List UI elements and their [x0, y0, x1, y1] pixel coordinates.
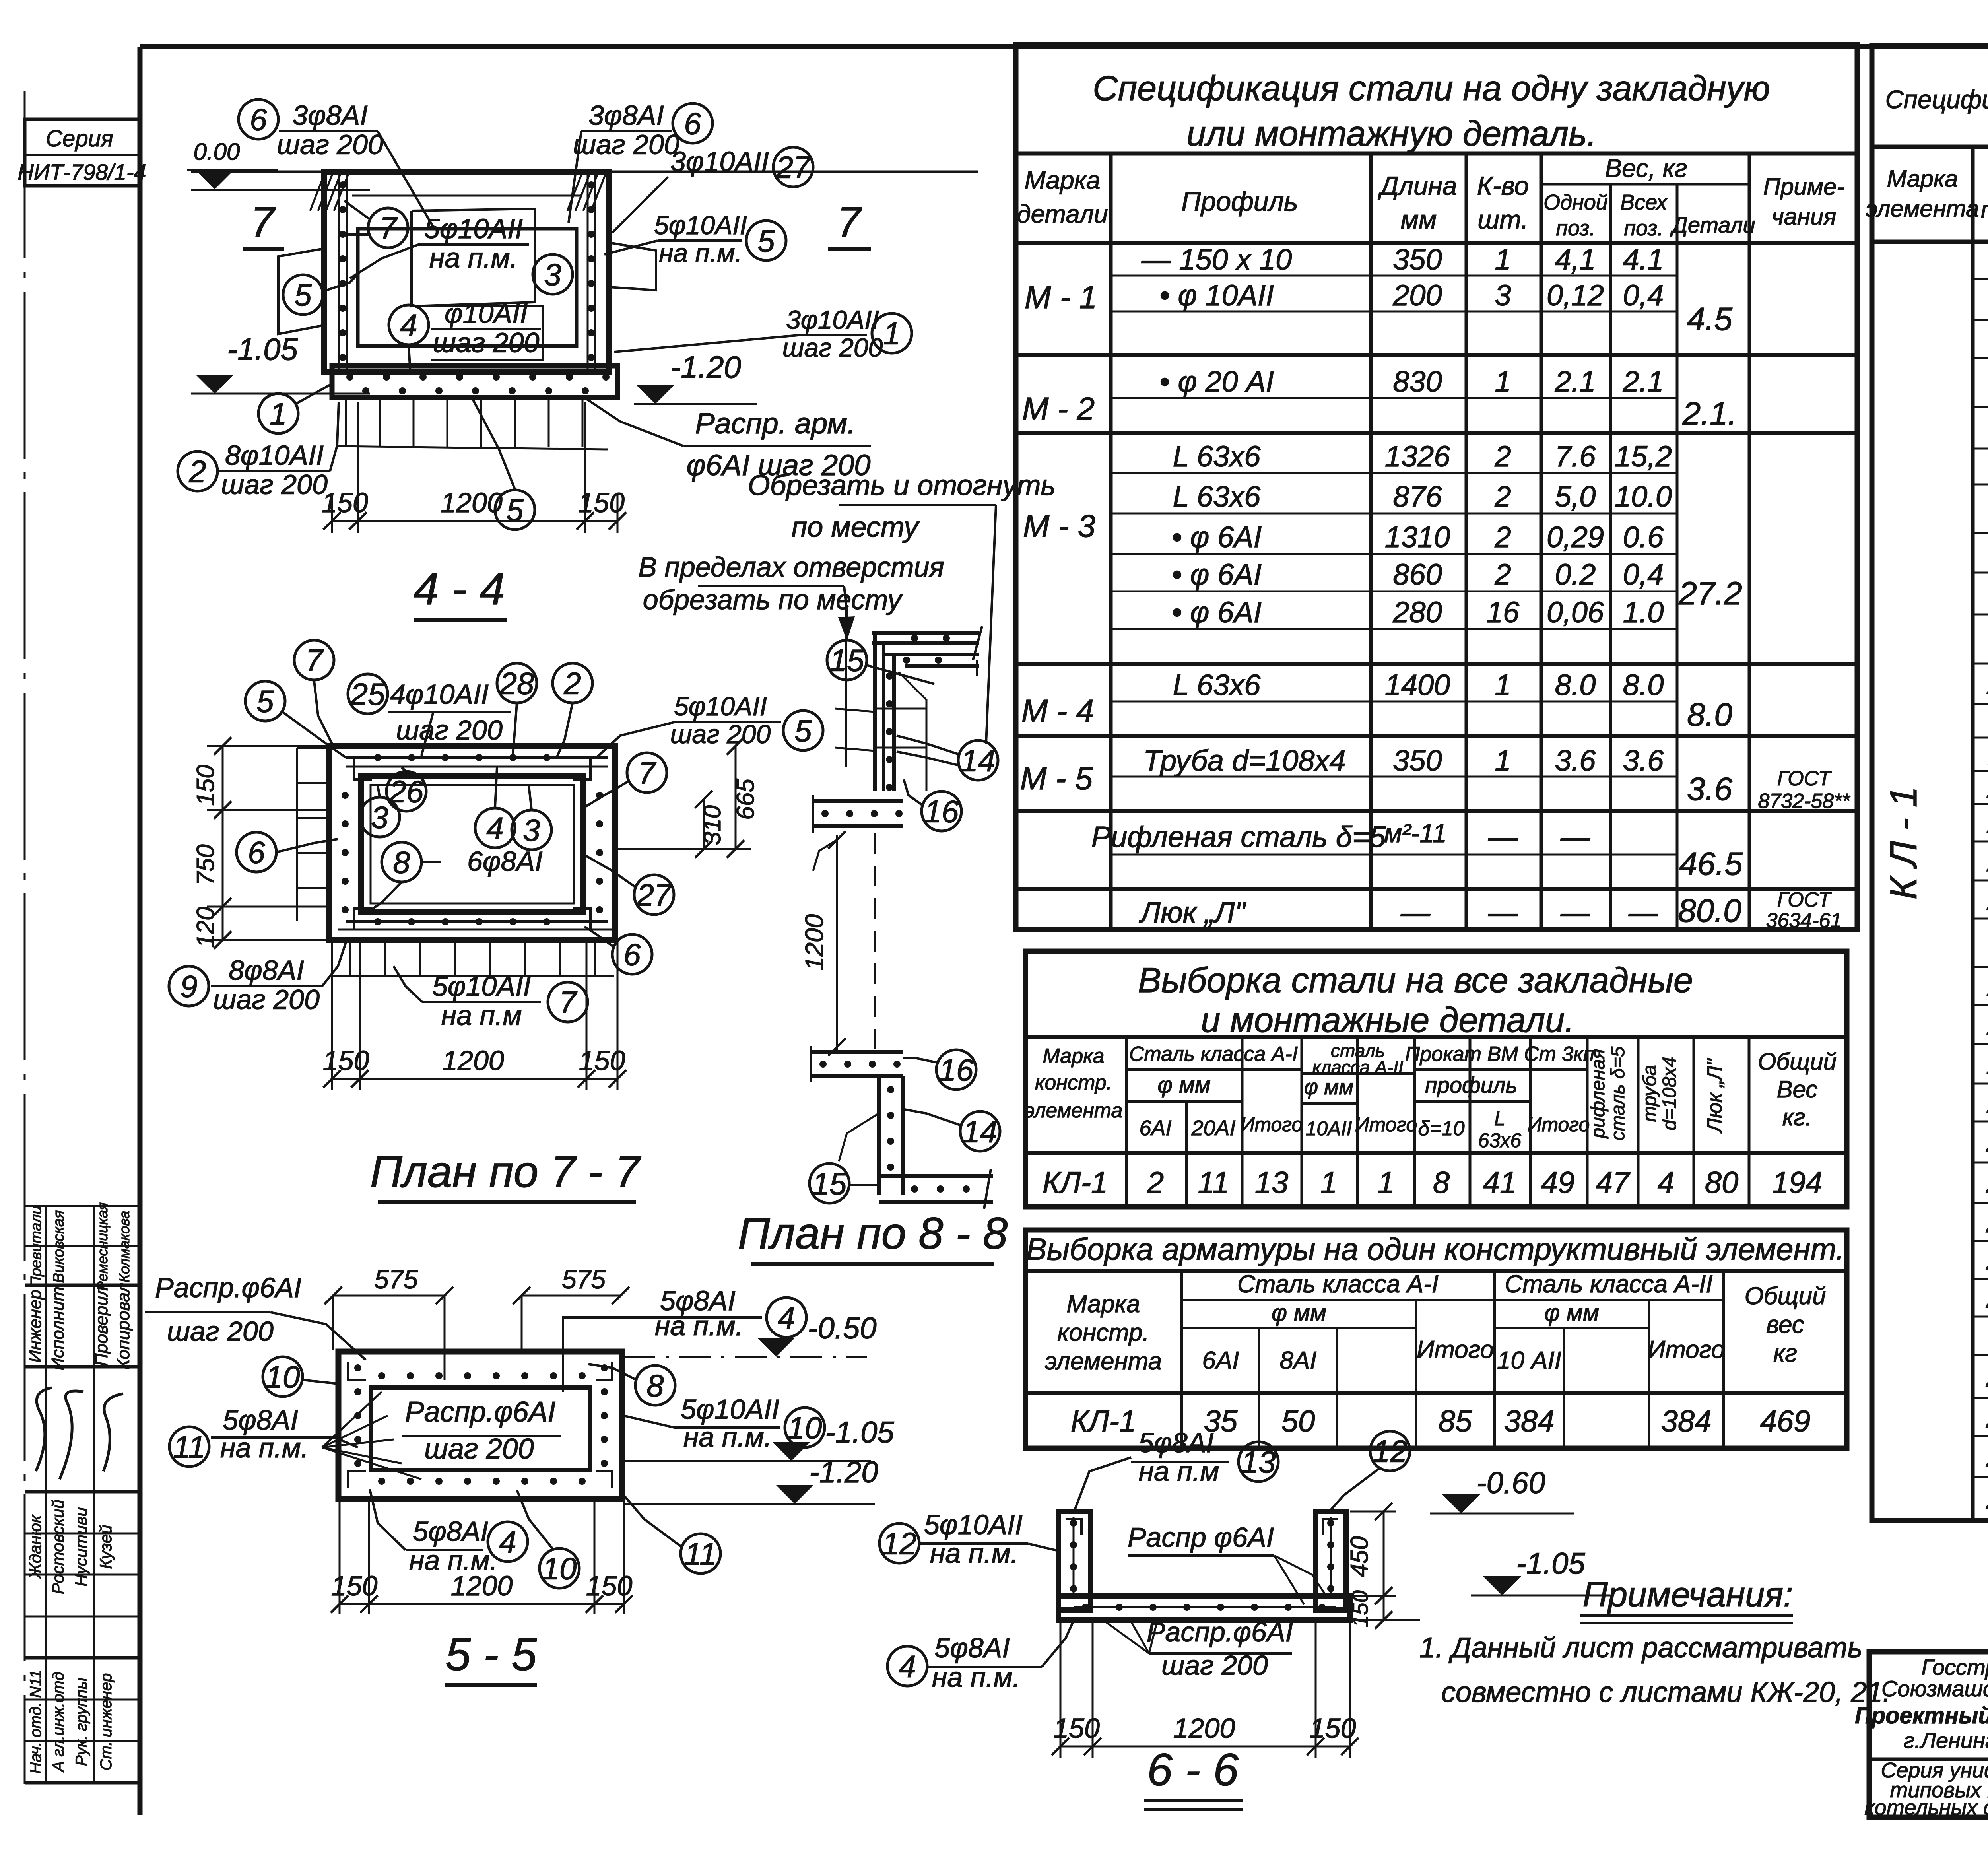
svg-text:чания: чания	[1772, 203, 1837, 230]
svg-text:—: —	[1560, 820, 1590, 853]
section 6-6 slab dash-dot extension	[1352, 1619, 1427, 1621]
plan 8-8 top corner wing lines	[899, 672, 926, 791]
section 4-4 label circle 5 left	[283, 275, 323, 315]
plan 7-7 bottom dimension 150 1200 150	[331, 940, 333, 1090]
svg-text:150: 150	[578, 487, 625, 518]
svg-text:Марка: Марка	[1887, 165, 1958, 192]
svg-text:-0.60: -0.60	[1476, 1466, 1545, 1500]
svg-text:876: 876	[1393, 480, 1442, 513]
svg-text:1400: 1400	[1385, 668, 1450, 701]
svg-text:Распр.φ6AI: Распр.φ6AI	[1147, 1616, 1293, 1647]
svg-text:КЛ-1: КЛ-1	[1071, 1404, 1136, 1438]
svg-text:φ мм: φ мм	[1272, 1300, 1326, 1326]
svg-text:15: 15	[1986, 883, 1988, 917]
svg-text:7: 7	[837, 198, 862, 246]
plan 8-8 label circle 16 bottom	[936, 1050, 976, 1090]
svg-text:10.0: 10.0	[1615, 480, 1672, 513]
svg-text:4.5: 4.5	[1687, 301, 1732, 337]
svg-text:шаг 200: шаг 200	[424, 1433, 534, 1465]
plan 7-7 right dimension 665	[735, 746, 737, 849]
svg-text:Марка: Марка	[1043, 1045, 1104, 1068]
svg-text:5φ8AI: 5φ8AI	[223, 1404, 298, 1435]
svg-text:5: 5	[256, 684, 274, 719]
svg-text:Ремесницкая: Ремесницкая	[94, 1202, 111, 1291]
svg-text:7.6: 7.6	[1555, 440, 1596, 473]
svg-text:6АI: 6АI	[1139, 1116, 1171, 1140]
table 2 header inner lines	[1126, 1068, 1302, 1071]
svg-text:Одной: Одной	[1543, 190, 1608, 214]
section 6-6 wall hooks	[1066, 1519, 1081, 1535]
svg-text:5φ10AII: 5φ10AII	[424, 213, 523, 244]
section 5-5 rebar dots bottom	[378, 1478, 385, 1485]
plan 7-7 label circle 7 right	[627, 753, 667, 793]
svg-text:4: 4	[400, 307, 417, 342]
table 1 header bottom line	[1016, 241, 1857, 245]
svg-text:4: 4	[486, 810, 503, 845]
svg-text:профиль: профиль	[1425, 1072, 1517, 1097]
svg-text:384: 384	[1661, 1404, 1712, 1438]
svg-text:63x6: 63x6	[1478, 1129, 1522, 1152]
svg-text:ГОСТ: ГОСТ	[1777, 888, 1832, 911]
svg-text:М - 3: М - 3	[1023, 508, 1095, 544]
svg-text:• φ 10AII: • φ 10AII	[1159, 279, 1274, 312]
svg-text:860: 860	[1393, 558, 1442, 591]
table 1 outer border	[1016, 45, 1857, 930]
svg-text:11: 11	[173, 1429, 206, 1464]
svg-text:16: 16	[924, 794, 959, 829]
svg-text:Итого: Итого	[1417, 1336, 1494, 1364]
svg-text:обрезать по месту: обрезать по месту	[643, 584, 903, 615]
section 4-4 right wall top hatch	[567, 175, 581, 211]
svg-text:3φ10AII: 3φ10AII	[786, 305, 879, 334]
svg-text:3: 3	[523, 812, 540, 847]
svg-text:469: 469	[1760, 1404, 1811, 1438]
table 3 header inner lines	[1182, 1299, 1494, 1301]
svg-text:Инженер: Инженер	[25, 1290, 45, 1363]
svg-text:24: 24	[1986, 1281, 1988, 1315]
svg-text:Люк „Л": Люк „Л"	[1703, 1058, 1726, 1134]
svg-text:Общий: Общий	[1745, 1282, 1826, 1310]
plan 8-8 dashed centerline	[874, 833, 876, 1052]
svg-text:Итого: Итого	[1241, 1113, 1303, 1136]
section 4-4 bottom slab rebar dots row2	[362, 387, 369, 394]
svg-text:и монтажные детали.: и монтажные детали.	[1201, 1000, 1574, 1039]
svg-text:350: 350	[1393, 243, 1442, 276]
svg-text:8: 8	[393, 845, 410, 880]
svg-text:Ростовский: Ростовский	[49, 1500, 67, 1594]
section 4-4 label 5f10AII na p.m. circle 3	[418, 243, 529, 246]
svg-text:Марка: Марка	[1024, 166, 1100, 194]
svg-text:шаг 200: шаг 200	[573, 129, 679, 160]
svg-text:— 150 x 10: — 150 x 10	[1141, 243, 1292, 276]
svg-text:120: 120	[192, 907, 219, 948]
svg-text:200: 200	[1392, 279, 1442, 312]
section 6-6 left wall	[1058, 1511, 1091, 1610]
plan 8-8 bottom corner bar vertical	[877, 1076, 881, 1195]
svg-text:5φ10AII: 5φ10AII	[674, 692, 767, 721]
svg-text:8: 8	[646, 1368, 664, 1403]
plan 7-7 rebar dots left wall	[342, 792, 349, 799]
svg-text:констр.: констр.	[1057, 1319, 1149, 1346]
svg-text:1: 1	[1495, 744, 1511, 777]
svg-text:шаг 200: шаг 200	[213, 984, 320, 1015]
section 5-5 bottom dimension 150 1200 150	[339, 1499, 341, 1614]
svg-text:2: 2	[1494, 558, 1511, 591]
stamp outer border	[1869, 1652, 1988, 1817]
svg-text:Нач. отд. N11: Нач. отд. N11	[27, 1670, 45, 1773]
svg-text:Детали: Детали	[1670, 212, 1755, 237]
svg-text:1200: 1200	[441, 487, 503, 518]
svg-text:Выборка стали на все закла: Выборка стали на все закладные	[1138, 960, 1693, 1000]
svg-text:11: 11	[685, 1536, 717, 1571]
svg-text:1200: 1200	[1173, 1713, 1235, 1744]
svg-text:8: 8	[1433, 1166, 1450, 1200]
section 4-4 label circle 5 bottom	[495, 490, 535, 530]
svg-text:1: 1	[1495, 668, 1511, 701]
svg-text:35: 35	[1204, 1404, 1238, 1438]
svg-text:Вес, кг: Вес, кг	[1605, 154, 1687, 183]
svg-text:констр.: констр.	[1035, 1071, 1112, 1094]
svg-text:15: 15	[812, 1166, 847, 1201]
svg-text:7: 7	[305, 643, 324, 678]
plan 7-7 label circle 6 left	[237, 832, 276, 872]
section 6-6 bottom slab	[1058, 1596, 1350, 1620]
section 4-4 top slab rebar line	[352, 195, 580, 197]
svg-text:150: 150	[323, 1045, 369, 1076]
svg-text:6 - 6: 6 - 6	[1147, 1744, 1239, 1795]
plan 7-7 rebar dots right wall	[596, 792, 603, 799]
svg-text:Рук. группы: Рук. группы	[73, 1678, 90, 1766]
stamp left cell divider	[1869, 1758, 1988, 1761]
section 5-5 label circle 10 left	[263, 1357, 303, 1397]
svg-text:Труба d=108x4: Труба d=108x4	[1143, 744, 1345, 777]
svg-text:2: 2	[563, 666, 581, 701]
svg-text:26: 26	[1986, 1401, 1988, 1434]
svg-text:Распр φ6AI: Распр φ6AI	[1128, 1522, 1274, 1553]
svg-text:14: 14	[963, 1114, 998, 1149]
svg-text:5: 5	[294, 277, 312, 312]
svg-text:Рифленая сталь δ=5: Рифленая сталь δ=5	[1091, 820, 1386, 853]
svg-text:8.0: 8.0	[1623, 668, 1664, 701]
plan 7-7 rebar dots top	[374, 754, 381, 761]
svg-text:4,1: 4,1	[1555, 243, 1596, 276]
svg-text:150: 150	[192, 765, 219, 806]
plan 7-7 label circle 25 4f10AII shag 200	[348, 674, 388, 714]
table 1 row lines	[1111, 275, 1677, 277]
svg-text:Длина: Длина	[1377, 171, 1457, 200]
svg-text:План по 8 - 8: План по 8 - 8	[738, 1208, 1008, 1258]
right table vertical lines	[1971, 147, 1975, 1521]
svg-text:8φ10AII: 8φ10AII	[225, 440, 324, 471]
section 5-5 label circle 8 right	[635, 1366, 675, 1405]
section 5-5 label circle 10 bottom	[540, 1548, 579, 1588]
svg-text:кг: кг	[1773, 1340, 1797, 1367]
svg-text:80.0: 80.0	[1678, 893, 1741, 929]
svg-text:150: 150	[586, 1570, 633, 1601]
table 2 outer border	[1025, 951, 1847, 1207]
svg-text:Серия: Серия	[46, 126, 113, 152]
svg-text:27: 27	[637, 877, 672, 912]
section 5-5 corner hooks	[348, 1362, 366, 1380]
svg-text:Исполнит.: Исполнит.	[48, 1282, 68, 1370]
plan 7-7 label 5f10AII na p.m circle 7 bottom	[422, 1001, 541, 1003]
svg-text:3: 3	[371, 800, 388, 835]
svg-text:6АI: 6АI	[1202, 1347, 1239, 1374]
svg-text:—: —	[1488, 896, 1518, 929]
section 4-4 label circle 4 f10AII shag 200	[389, 305, 429, 345]
svg-text:1. Данный лист рассматривать: 1. Данный лист рассматривать	[1419, 1632, 1862, 1664]
svg-text:7: 7	[379, 210, 398, 245]
svg-text:на п.м.: на п.м.	[429, 242, 518, 273]
svg-text:м²-11: м²-11	[1384, 818, 1447, 848]
svg-text:27: 27	[776, 150, 812, 185]
svg-text:5 - 5: 5 - 5	[445, 1629, 537, 1680]
svg-text:5φ10AII: 5φ10AII	[924, 1509, 1023, 1540]
svg-text:Итого: Итого	[1355, 1113, 1417, 1136]
section 6-6 label circle 12 left 5f10AII na p.m.	[879, 1523, 919, 1563]
section 4-4 label 3f10AII shag 200 circle 1 right	[798, 334, 867, 336]
svg-text:20: 20	[1986, 1125, 1988, 1159]
sidebar signature scribbles	[36, 1388, 52, 1471]
svg-text:16: 16	[1487, 596, 1520, 629]
svg-text:2: 2	[1494, 521, 1511, 554]
svg-text:Виковская: Виковская	[50, 1210, 67, 1283]
svg-text:750: 750	[192, 844, 219, 885]
svg-text:-1.05: -1.05	[825, 1416, 894, 1449]
svg-text:10: 10	[542, 1551, 577, 1586]
svg-text:-0.50: -0.50	[808, 1311, 876, 1345]
svg-text:на п.м.: на п.м.	[659, 238, 742, 268]
svg-text:46.5: 46.5	[1679, 846, 1743, 882]
table 2 vertical lines	[1125, 1037, 1128, 1207]
svg-text:8φ8AI: 8φ8AI	[229, 955, 304, 986]
svg-text:-1.05: -1.05	[227, 332, 298, 367]
svg-text:• φ 6AI: • φ 6AI	[1172, 558, 1262, 591]
plan 7-7 bottom formwork ladder	[331, 975, 614, 977]
svg-text:8.0: 8.0	[1687, 697, 1732, 733]
svg-text:Ст. инженер: Ст. инженер	[97, 1673, 115, 1771]
svg-text:Прокат ВМ Ст 3кп: Прокат ВМ Ст 3кп	[1405, 1043, 1595, 1066]
plan 8-8 bottom corner wing lines	[839, 1113, 879, 1161]
svg-text:3634-61: 3634-61	[1766, 909, 1842, 932]
section 5-5 rebar dots left	[354, 1364, 361, 1371]
section 4-4 ground line 0.00	[191, 171, 978, 173]
svg-text:элемента: элемента	[1025, 1099, 1123, 1122]
section 4-4 left formwork ledge	[278, 249, 324, 334]
svg-text:20АI: 20АI	[1191, 1116, 1235, 1140]
table 3 vertical lines	[1180, 1271, 1183, 1448]
svg-text:—: —	[1400, 896, 1431, 929]
plan 7-7 inner wall rectangle	[361, 776, 583, 912]
plan 7-7 label 5f10AII shag 200 circle 5 top right	[676, 721, 781, 723]
svg-text:12: 12	[882, 1526, 917, 1561]
svg-text:0,4: 0,4	[1623, 558, 1664, 591]
plan 7-7 label circle 5 top left	[245, 681, 285, 721]
svg-text:50: 50	[1281, 1404, 1315, 1438]
svg-text:Копировал: Копировал	[114, 1283, 133, 1370]
svg-text:труба: труба	[1639, 1065, 1660, 1122]
svg-text:5φ10AII: 5φ10AII	[681, 1394, 779, 1425]
svg-text:1: 1	[883, 316, 900, 351]
svg-text:5φ8AI: 5φ8AI	[1138, 1427, 1214, 1458]
svg-text:φ10AII: φ10AII	[445, 298, 528, 329]
svg-text:1310: 1310	[1385, 521, 1450, 554]
svg-text:13: 13	[1255, 1166, 1289, 1200]
svg-text:• φ 20 AI: • φ 20 AI	[1159, 365, 1274, 398]
svg-text:или монтажную деталь.: или монтажную деталь.	[1186, 114, 1597, 153]
svg-text:ГОСТ: ГОСТ	[1777, 767, 1832, 790]
svg-text:14: 14	[1986, 844, 1988, 878]
svg-text:1: 1	[1495, 243, 1511, 276]
section 6-6 left wall rebar dots	[1073, 1517, 1075, 1595]
svg-text:Сталь класса А-I: Сталь класса А-I	[1237, 1270, 1439, 1298]
svg-text:12: 12	[1373, 1434, 1408, 1469]
plan 7-7 label circle 7 top left	[294, 640, 334, 680]
svg-text:А гл.инж.отд: А гл.инж.отд	[50, 1672, 67, 1773]
svg-text:150: 150	[1347, 1590, 1373, 1627]
section 4-4 left wall inner rebar line	[338, 175, 340, 369]
svg-text:поз.: поз.	[1624, 216, 1663, 240]
table 2 header bottom line	[1025, 1151, 1847, 1155]
svg-text:на п.м.: на п.м.	[220, 1432, 309, 1463]
plan 8-8 label circle 14 bottom	[960, 1111, 1000, 1151]
svg-text:3.6: 3.6	[1623, 744, 1664, 777]
svg-text:7: 7	[250, 198, 276, 246]
svg-text:27: 27	[1986, 1440, 1988, 1474]
svg-text:3: 3	[544, 257, 561, 292]
plan 7-7 label circle 26	[386, 771, 426, 811]
svg-text:2: 2	[1147, 1166, 1164, 1200]
plan 7-7 label circle 8 6f8AI	[382, 842, 421, 882]
svg-text:М - 4: М - 4	[1021, 693, 1094, 728]
svg-text:5φ8AI: 5φ8AI	[413, 1516, 488, 1547]
section 6-6 label circle 12 top right	[1370, 1431, 1410, 1471]
plan 7-7 bottom rebar lines	[346, 920, 608, 923]
svg-text:575: 575	[374, 1265, 418, 1294]
svg-text:на п.м.: на п.м.	[683, 1422, 772, 1453]
svg-text:14: 14	[961, 743, 996, 778]
svg-text:шаг 200: шаг 200	[167, 1316, 274, 1347]
svg-text:1326: 1326	[1385, 440, 1450, 473]
svg-text:Приме-: Приме-	[1763, 173, 1845, 200]
svg-text:1200: 1200	[451, 1570, 513, 1601]
svg-text:19: 19	[1986, 1086, 1988, 1119]
table 3 header bottom line	[1025, 1391, 1847, 1395]
svg-text:на п.м.: на п.м.	[655, 1310, 743, 1341]
svg-text:Распр. арм.: Распр. арм.	[695, 407, 855, 440]
section 6-6 slab inner rebar line with dots	[1074, 1606, 1336, 1608]
svg-text:3.6: 3.6	[1555, 744, 1596, 777]
svg-text:мм: мм	[1401, 205, 1437, 234]
svg-text:-1.20: -1.20	[809, 1455, 878, 1489]
svg-text:18: 18	[1986, 1047, 1988, 1081]
svg-text:41: 41	[1483, 1166, 1517, 1200]
plan 7-7 label circle 3 right	[512, 810, 551, 850]
svg-text:Марка: Марка	[1066, 1290, 1140, 1318]
section 5-5 label circle 11 5f8AI na p.m.	[169, 1427, 209, 1467]
svg-text:6: 6	[248, 835, 265, 870]
svg-text:0,4: 0,4	[1623, 279, 1664, 312]
section 4-4 label 5f10AII na p.m. frame	[412, 209, 535, 306]
svg-text:Нуситиви: Нуситиви	[72, 1507, 90, 1586]
svg-text:150: 150	[1053, 1713, 1100, 1744]
table 3 outer border	[1025, 1230, 1847, 1448]
section 6-6 label circle 4 5f8AI na p.m. bottom left	[887, 1646, 927, 1686]
svg-text:9: 9	[180, 969, 197, 1004]
section 4-4 label circle 1 left	[258, 394, 298, 433]
sidebar outer thin line	[24, 91, 26, 1784]
svg-text:150: 150	[322, 487, 368, 518]
svg-text:194: 194	[1772, 1166, 1823, 1200]
svg-text:1: 1	[1320, 1166, 1337, 1200]
sidebar series box divider	[25, 154, 141, 156]
svg-text:21: 21	[1986, 1166, 1988, 1200]
svg-text:10 АII: 10 АII	[1497, 1347, 1561, 1374]
section 4-4 left wall top hatch	[310, 175, 324, 211]
page frame top border	[140, 44, 1988, 49]
svg-text:10: 10	[266, 1359, 300, 1394]
svg-text:2.1: 2.1	[1623, 365, 1664, 398]
svg-text:25: 25	[350, 676, 385, 711]
svg-text:Союзмашстрой проект: Союзмашстрой проект	[1881, 1676, 1988, 1701]
svg-text:• φ 6AI: • φ 6AI	[1172, 596, 1262, 629]
svg-text:Итого: Итого	[1648, 1336, 1725, 1364]
svg-text:δ=10: δ=10	[1418, 1117, 1464, 1140]
svg-text:Итого: Итого	[1528, 1113, 1590, 1136]
svg-text:—: —	[1560, 896, 1590, 929]
svg-text:150: 150	[331, 1570, 378, 1601]
svg-text:1: 1	[1378, 1166, 1394, 1200]
svg-text:5: 5	[757, 223, 775, 258]
svg-text:2.1.: 2.1.	[1682, 396, 1737, 432]
svg-text:План по 7 - 7: План по 7 - 7	[370, 1147, 641, 1197]
svg-text:L: L	[1494, 1107, 1505, 1130]
svg-text:1: 1	[1495, 365, 1511, 398]
plan 8-8 middle bar	[813, 799, 903, 803]
svg-text:3: 3	[1495, 279, 1511, 312]
svg-text:Спецификация стали на одну: Спецификация стали на одну закладную	[1093, 68, 1770, 108]
svg-text:16: 16	[939, 1052, 974, 1087]
svg-text:830: 830	[1393, 365, 1442, 398]
svg-text:3φ8AI: 3φ8AI	[588, 100, 664, 131]
plan 7-7 left formwork ladder	[296, 748, 298, 921]
section 4-4 right wall rebar dots	[588, 181, 595, 188]
svg-text:детали: детали	[1017, 200, 1108, 228]
section 4-4 right formwork ledge	[609, 243, 656, 290]
svg-text:—: —	[1488, 820, 1518, 853]
svg-text:В пределах отверстия: В пределах отверстия	[638, 552, 944, 583]
svg-text:4.1: 4.1	[1623, 243, 1664, 276]
svg-text:4: 4	[778, 1300, 795, 1335]
svg-text:элемента: элемента	[1866, 195, 1979, 222]
section 4-4 bottom dimension 150 1200 150	[331, 493, 333, 533]
svg-text:L 63x6: L 63x6	[1173, 668, 1261, 701]
plan 7-7 corner hooks	[354, 756, 372, 779]
svg-text:Примечания:: Примечания:	[1582, 1575, 1793, 1614]
svg-text:НИТ-798/1-4: НИТ-798/1-4	[17, 159, 146, 185]
svg-text:28: 28	[1986, 1482, 1988, 1516]
section 5-5 outer box	[338, 1352, 622, 1499]
section 5-5 inner box	[371, 1387, 590, 1470]
section 4-4 channel outer box	[324, 172, 609, 372]
svg-text:Кузей: Кузей	[96, 1525, 115, 1569]
svg-text:47: 47	[1596, 1166, 1631, 1200]
svg-text:L 63x6: L 63x6	[1173, 480, 1261, 513]
svg-text:150: 150	[1310, 1713, 1356, 1744]
plan 8-8 bottom corner bar horizontal	[879, 1174, 993, 1178]
svg-text:Профиль: Профиль	[1181, 186, 1298, 217]
section 4-4 label 5f10AII na p.m. circle 5 right	[658, 239, 742, 242]
